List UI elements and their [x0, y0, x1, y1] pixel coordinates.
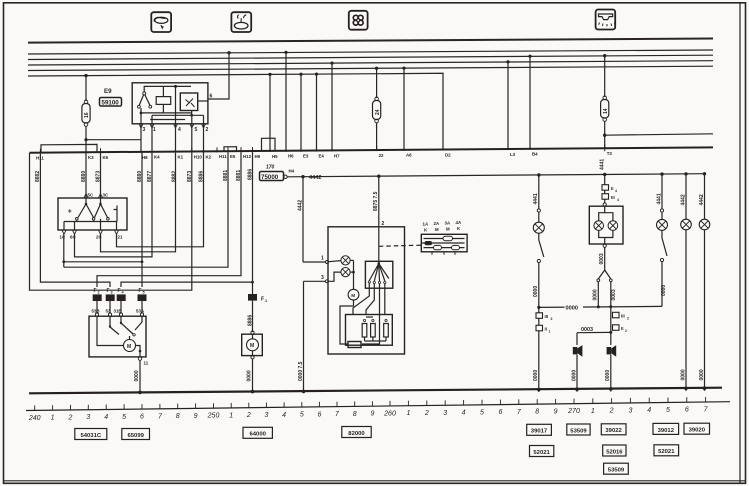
svg-text:4: 4	[615, 189, 617, 193]
mid column to buzzer	[610, 307, 612, 345]
strip ticks	[40, 144, 604, 154]
C box pin 1C	[60, 230, 67, 239]
wire to pin 1	[303, 261, 326, 263]
wire 8875 to pin 2	[378, 176, 380, 227]
component ref box 52021	[530, 446, 554, 457]
svg-text:82000: 82000	[348, 431, 365, 437]
svg-text:4: 4	[462, 410, 466, 417]
wire K1 to pin2C routing row B	[101, 153, 176, 252]
junction H6 drop on L2	[284, 51, 287, 54]
junction earth courtesy L	[537, 388, 541, 392]
component ref box 54031C	[75, 429, 107, 440]
wiper motor M	[97, 330, 141, 357]
svg-text:8882: 8882	[172, 171, 178, 182]
svg-text:M: M	[127, 344, 131, 350]
component ref box 53509	[604, 463, 629, 474]
junction courtesy right	[660, 172, 663, 175]
svg-text:2A: 2A	[434, 221, 440, 226]
svg-text:4: 4	[647, 407, 651, 414]
wire row E 1C to E5	[64, 152, 228, 267]
wire fuse16 drop	[85, 76, 87, 101]
relay pin 4 wire	[175, 86, 177, 152]
svg-text:6: 6	[210, 94, 213, 100]
svg-text:24: 24	[375, 109, 381, 115]
resistor R3	[384, 319, 389, 341]
resistor R1	[362, 319, 367, 341]
svg-text:K3: K3	[88, 155, 94, 160]
junction L3 drop on L4	[506, 60, 509, 63]
junction reading lamp b	[703, 172, 706, 175]
svg-text:H11: H11	[219, 154, 227, 159]
svg-text:E4: E4	[319, 153, 325, 158]
svg-text:6: 6	[498, 409, 502, 416]
svg-text:53A: 53A	[136, 308, 145, 313]
svg-text:54031C: 54031C	[80, 433, 101, 439]
svg-text:M: M	[435, 227, 439, 232]
panel lamp 2	[329, 268, 351, 282]
junction relay pin6 on L2	[227, 51, 230, 54]
wire reading lamp b ground	[699, 230, 705, 391]
relay internal rail a	[140, 108, 192, 114]
svg-text:52021: 52021	[658, 449, 675, 455]
junction row D on 1C wire	[62, 260, 65, 263]
svg-text:4441: 4441	[533, 193, 539, 204]
svg-text:F: F	[94, 288, 97, 294]
junction reading lamp a	[684, 172, 687, 175]
dome lamp feed junction	[603, 173, 606, 176]
svg-text:39022: 39022	[605, 428, 622, 434]
svg-text:T3: T3	[607, 151, 613, 156]
fuse 16	[82, 100, 90, 126]
connector II2	[613, 325, 628, 333]
wire buzzer right ground	[605, 355, 611, 392]
svg-text:1: 1	[549, 330, 551, 334]
relay switch contact	[138, 86, 152, 108]
dome bulb 1	[594, 221, 604, 231]
svg-text:53509: 53509	[608, 468, 625, 474]
junction earth panel	[302, 390, 306, 394]
wire lamps to blower motor	[350, 260, 355, 289]
svg-text:II: II	[545, 327, 547, 332]
junction switch feed	[377, 175, 380, 178]
junction earth wiper	[138, 391, 142, 395]
wire fork right 0003	[609, 282, 617, 309]
svg-text:0000: 0000	[699, 369, 705, 380]
svg-text:8: 8	[535, 409, 539, 416]
junction earth pump	[251, 390, 255, 394]
connector row 2	[421, 241, 464, 245]
resistor R2	[371, 319, 376, 341]
svg-text:270: 270	[567, 408, 580, 415]
svg-text:M: M	[351, 293, 355, 298]
svg-text:2C: 2C	[96, 235, 102, 240]
frame inner right line	[739, 3, 741, 483]
C box pin 3C	[99, 152, 109, 198]
pin 3	[304, 275, 329, 283]
wire 0003 dome	[599, 247, 605, 270]
svg-text:16: 16	[84, 112, 90, 118]
wire pin3 ground	[303, 281, 305, 391]
connector block J1	[421, 234, 467, 252]
svg-text:0003: 0003	[581, 327, 593, 333]
svg-text:0000: 0000	[680, 369, 686, 380]
svg-text:8: 8	[176, 413, 180, 420]
svg-text:K6: K6	[103, 155, 109, 160]
relay pin arrows	[139, 124, 143, 128]
reading lamp b column	[699, 174, 705, 220]
svg-text:1: 1	[591, 408, 595, 415]
motor unit pin 31B	[114, 301, 123, 316]
buzzer right	[607, 345, 617, 357]
relay internal rail c	[150, 119, 185, 121]
coordinate scale line	[26, 402, 730, 411]
C box internal contact a	[68, 198, 95, 220]
svg-text:39012: 39012	[658, 428, 675, 434]
junction row G2 on F1 column	[251, 281, 254, 284]
bus line L4	[28, 61, 713, 65]
svg-text:L3: L3	[510, 152, 516, 157]
wire row D to H8 column	[64, 261, 142, 263]
switch right door	[660, 230, 667, 306]
svg-text:3: 3	[551, 317, 553, 321]
svg-text:H5: H5	[272, 154, 278, 159]
svg-text:4: 4	[282, 412, 286, 419]
junction L6-K3 feed	[84, 74, 87, 77]
terminal strip rail	[30, 147, 714, 152]
icon headlamp wiper	[151, 12, 171, 32]
svg-text:170: 170	[266, 165, 275, 171]
relay timer unit K	[180, 93, 197, 111]
svg-text:7: 7	[158, 413, 163, 420]
junction earth reading a	[684, 387, 688, 391]
svg-text:4442: 4442	[680, 194, 686, 205]
svg-text:0000: 0000	[571, 370, 577, 381]
junction fuse24 on L5	[375, 67, 378, 70]
svg-text:4: 4	[617, 198, 619, 202]
svg-text:0000: 0000	[605, 370, 611, 381]
wire drop to H5	[269, 74, 271, 150]
svg-text:9: 9	[194, 413, 198, 420]
buzzer left	[573, 345, 583, 357]
C box pin 5C	[84, 152, 94, 198]
wire row F H12 to fuse F2	[97, 152, 241, 287]
svg-text:3: 3	[628, 407, 632, 414]
bottom earth bus	[29, 388, 722, 394]
svg-text:K1: K1	[178, 155, 184, 160]
fuse block F5	[138, 294, 147, 301]
svg-text:8: 8	[353, 411, 357, 418]
svg-text:250: 250	[207, 413, 220, 420]
fuse 24	[373, 97, 382, 123]
svg-text:3: 3	[86, 414, 90, 421]
component ref box 39017	[527, 424, 552, 435]
connector II1	[536, 325, 551, 333]
svg-text:9: 9	[554, 408, 558, 415]
svg-text:2: 2	[68, 414, 73, 421]
svg-text:F: F	[139, 288, 142, 294]
svg-text:E9: E9	[104, 88, 112, 95]
frame inner bottom line	[4, 480, 745, 482]
wire reading lamp a ground	[680, 230, 686, 391]
wire row G2 F4 to H9 column	[121, 282, 253, 287]
wire L3 to fuse14	[604, 56, 606, 97]
fuse block F2	[93, 294, 102, 301]
svg-text:0000: 0000	[134, 370, 140, 381]
svg-text:H8: H8	[142, 155, 148, 160]
C box internal contact b	[95, 198, 110, 220]
wire drop to A6	[403, 68, 405, 150]
dome switch fork	[597, 270, 612, 282]
wire wiper motor ground	[139, 360, 141, 392]
lamp reading a	[681, 219, 692, 230]
junction earth buzzer R	[609, 387, 613, 391]
fan switch box	[365, 261, 392, 288]
svg-text:39017: 39017	[531, 429, 548, 435]
wire K2 to pin21 routing row A	[117, 153, 204, 247]
svg-text:53: 53	[106, 308, 111, 313]
connector block labels	[423, 220, 462, 233]
svg-text:K4: K4	[154, 155, 160, 160]
wire drop to E3	[300, 74, 302, 151]
svg-text:59100: 59100	[102, 100, 120, 107]
junction lamp feed 1	[301, 175, 304, 178]
dome lamp feed wire	[604, 175, 606, 204]
wire 0003 buzzer link	[577, 327, 611, 345]
svg-text:5: 5	[195, 127, 198, 133]
connector III4	[602, 194, 619, 202]
svg-text:4A: 4A	[456, 220, 462, 225]
dome output pin	[603, 244, 606, 247]
svg-text:4: 4	[178, 127, 181, 133]
wire buzzer left ground	[571, 355, 577, 392]
junction earth reading b	[703, 386, 707, 390]
svg-text:2: 2	[98, 291, 100, 295]
svg-text:6C: 6C	[70, 235, 76, 240]
component ref box 39022	[601, 424, 626, 435]
component ref box 52016	[603, 445, 626, 456]
motor unit pin 53A	[136, 301, 145, 316]
wire pump ground	[252, 359, 254, 392]
svg-text:21: 21	[118, 235, 123, 240]
connector II4	[602, 185, 617, 193]
svg-text:6: 6	[685, 407, 689, 414]
svg-text:M: M	[250, 343, 254, 349]
bus line L5	[28, 66, 713, 70]
junction A6 drop on L5	[402, 67, 405, 70]
svg-text:22: 22	[379, 153, 384, 158]
wire stub to right margin	[605, 134, 713, 135]
wire drop to E4	[316, 74, 318, 151]
wiper motor bottom pin 11	[138, 357, 148, 366]
wire row G1 H11 to fuse F3	[40, 154, 110, 287]
C box internal contact c	[114, 206, 118, 222]
motor unit pin 53	[106, 301, 112, 316]
svg-text:53509: 53509	[570, 428, 587, 434]
wire drop to H7	[331, 63, 333, 150]
C box internal links	[64, 219, 117, 230]
svg-text:5: 5	[122, 414, 126, 421]
relay pin 1 wire	[151, 115, 153, 152]
svg-text:III: III	[621, 314, 625, 319]
svg-text:H9: H9	[255, 154, 261, 159]
svg-text:65099: 65099	[128, 433, 145, 439]
svg-text:0000: 0000	[566, 305, 578, 311]
svg-text:1: 1	[321, 256, 324, 262]
svg-text:5: 5	[480, 409, 484, 416]
svg-text:H12: H12	[243, 154, 252, 159]
svg-text:11: 11	[144, 361, 149, 366]
courtesy lamp right column	[656, 174, 663, 220]
svg-text:0000: 0000	[533, 286, 539, 297]
svg-text:1: 1	[406, 410, 410, 417]
component ref box 53509	[567, 424, 590, 435]
washer pump 64000	[242, 331, 263, 359]
wire 1C drop	[63, 234, 65, 268]
svg-text:14: 14	[603, 108, 609, 114]
svg-text:F: F	[107, 288, 110, 294]
relay internal node	[174, 85, 177, 88]
svg-text:5C: 5C	[88, 193, 94, 198]
junction courtesy lamp left	[537, 173, 540, 176]
svg-text:3: 3	[264, 412, 268, 419]
scale tick marks	[35, 397, 706, 410]
bus line L1	[28, 39, 713, 43]
svg-text:6: 6	[317, 411, 321, 418]
wire drop to B4	[529, 56, 531, 149]
svg-text:4: 4	[104, 414, 108, 421]
connector row 1	[424, 236, 465, 240]
scale numbers	[28, 407, 709, 422]
fuse block F4	[117, 294, 126, 301]
svg-text:E5: E5	[230, 154, 236, 159]
svg-text:5: 5	[300, 412, 304, 419]
label 0000 on link	[565, 303, 584, 312]
fuse block F1	[248, 294, 257, 301]
connector bracket H11-K6	[41, 144, 97, 152]
wire panel lamp feed	[302, 177, 304, 262]
svg-text:2: 2	[206, 127, 209, 133]
wire 0000 link line	[539, 306, 662, 307]
junction E3 drop on L6	[299, 73, 302, 76]
wire K4 to pin6C routing row C	[75, 153, 153, 257]
fuse block F3	[106, 294, 115, 301]
svg-text:1C: 1C	[60, 235, 66, 240]
wire fuse16 to strip K3	[85, 126, 87, 152]
wire L5 to fuse24	[376, 68, 378, 98]
blower symbol M	[348, 289, 359, 300]
svg-text:2: 2	[246, 412, 251, 419]
svg-text:E3: E3	[303, 154, 309, 159]
switch unit C box	[58, 198, 127, 230]
relay internal top rail	[144, 85, 191, 87]
svg-text:7: 7	[517, 409, 522, 416]
svg-text:3: 3	[321, 275, 324, 281]
svg-text:0000: 0000	[533, 370, 539, 381]
switch left door	[533, 233, 544, 307]
wire fuse14 to strip T3	[604, 121, 606, 148]
junction fuse16 line	[84, 138, 87, 141]
svg-text:7: 7	[704, 407, 709, 414]
dashed link to connector	[379, 245, 421, 246]
svg-text:3C: 3C	[103, 193, 109, 198]
svg-text:4442: 4442	[699, 194, 705, 205]
svg-text:III: III	[545, 314, 549, 319]
connector bottom pins	[432, 252, 455, 255]
lamp reading b	[699, 219, 710, 230]
svg-text:II: II	[611, 186, 613, 191]
component ref box 82000	[342, 427, 371, 438]
svg-text:K2: K2	[206, 154, 212, 159]
resistor pack box	[346, 315, 393, 346]
dome bulb 2	[608, 221, 618, 231]
junction fuse14 on L3	[603, 54, 606, 57]
panel lamp 1	[329, 256, 351, 265]
svg-text:4441: 4441	[600, 159, 606, 170]
svg-text:B4: B4	[532, 152, 538, 157]
wire relay pin6 riser	[208, 53, 229, 99]
junction H7 drop on L4	[330, 62, 333, 65]
svg-text:0000: 0000	[247, 370, 253, 381]
fuse 14	[601, 96, 609, 121]
svg-text:5: 5	[143, 291, 145, 295]
switch to resistor wires	[353, 283, 385, 344]
svg-text:1A: 1A	[423, 222, 429, 227]
junction link left	[537, 306, 540, 309]
bus line L3	[28, 55, 713, 59]
wire fuse16 to relay pin3 column	[86, 139, 141, 141]
relay pin 2 wire	[203, 115, 205, 152]
svg-text:3: 3	[111, 291, 113, 295]
svg-text:31B: 31B	[114, 308, 122, 313]
svg-text:M: M	[446, 227, 450, 232]
svg-text:K: K	[457, 226, 461, 231]
reading lamp a column	[680, 174, 686, 220]
component ref box 65099	[122, 429, 150, 440]
lamp right courtesy	[657, 219, 668, 230]
relay E9 outline	[132, 83, 208, 124]
component ref box 64000	[243, 427, 272, 438]
junction H5 drop on L6	[268, 73, 271, 76]
svg-text:K: K	[424, 228, 428, 233]
wire number labels below strip	[35, 159, 606, 182]
svg-text:6: 6	[140, 414, 144, 421]
svg-text:2: 2	[627, 317, 629, 321]
C box pin 2C	[96, 230, 103, 239]
dome bulbs common	[599, 230, 613, 244]
svg-text:4: 4	[122, 291, 125, 295]
relay pin 3 wire	[140, 113, 142, 152]
box 75000	[260, 172, 288, 182]
component ref box 39020	[684, 423, 710, 434]
svg-text:64000: 64000	[250, 432, 267, 438]
ballast resistor	[348, 342, 361, 348]
svg-text:53B: 53B	[92, 308, 100, 313]
svg-text:4442: 4442	[309, 175, 321, 181]
connector III2	[613, 312, 630, 320]
relay pin 5 wire	[191, 115, 193, 152]
fan switch fan-out	[368, 227, 389, 284]
connector III3	[536, 307, 553, 392]
junction T3 column stub line	[603, 134, 606, 137]
svg-text:240: 240	[28, 415, 41, 422]
svg-text:H10: H10	[194, 154, 203, 159]
svg-text:0003: 0003	[611, 289, 617, 300]
junction buzzer link	[609, 331, 612, 334]
terminal labels row	[36, 151, 612, 161]
svg-text:0000 7.5: 0000 7.5	[298, 361, 304, 381]
svg-text:7: 7	[335, 411, 340, 418]
C box pin 21	[115, 230, 123, 239]
